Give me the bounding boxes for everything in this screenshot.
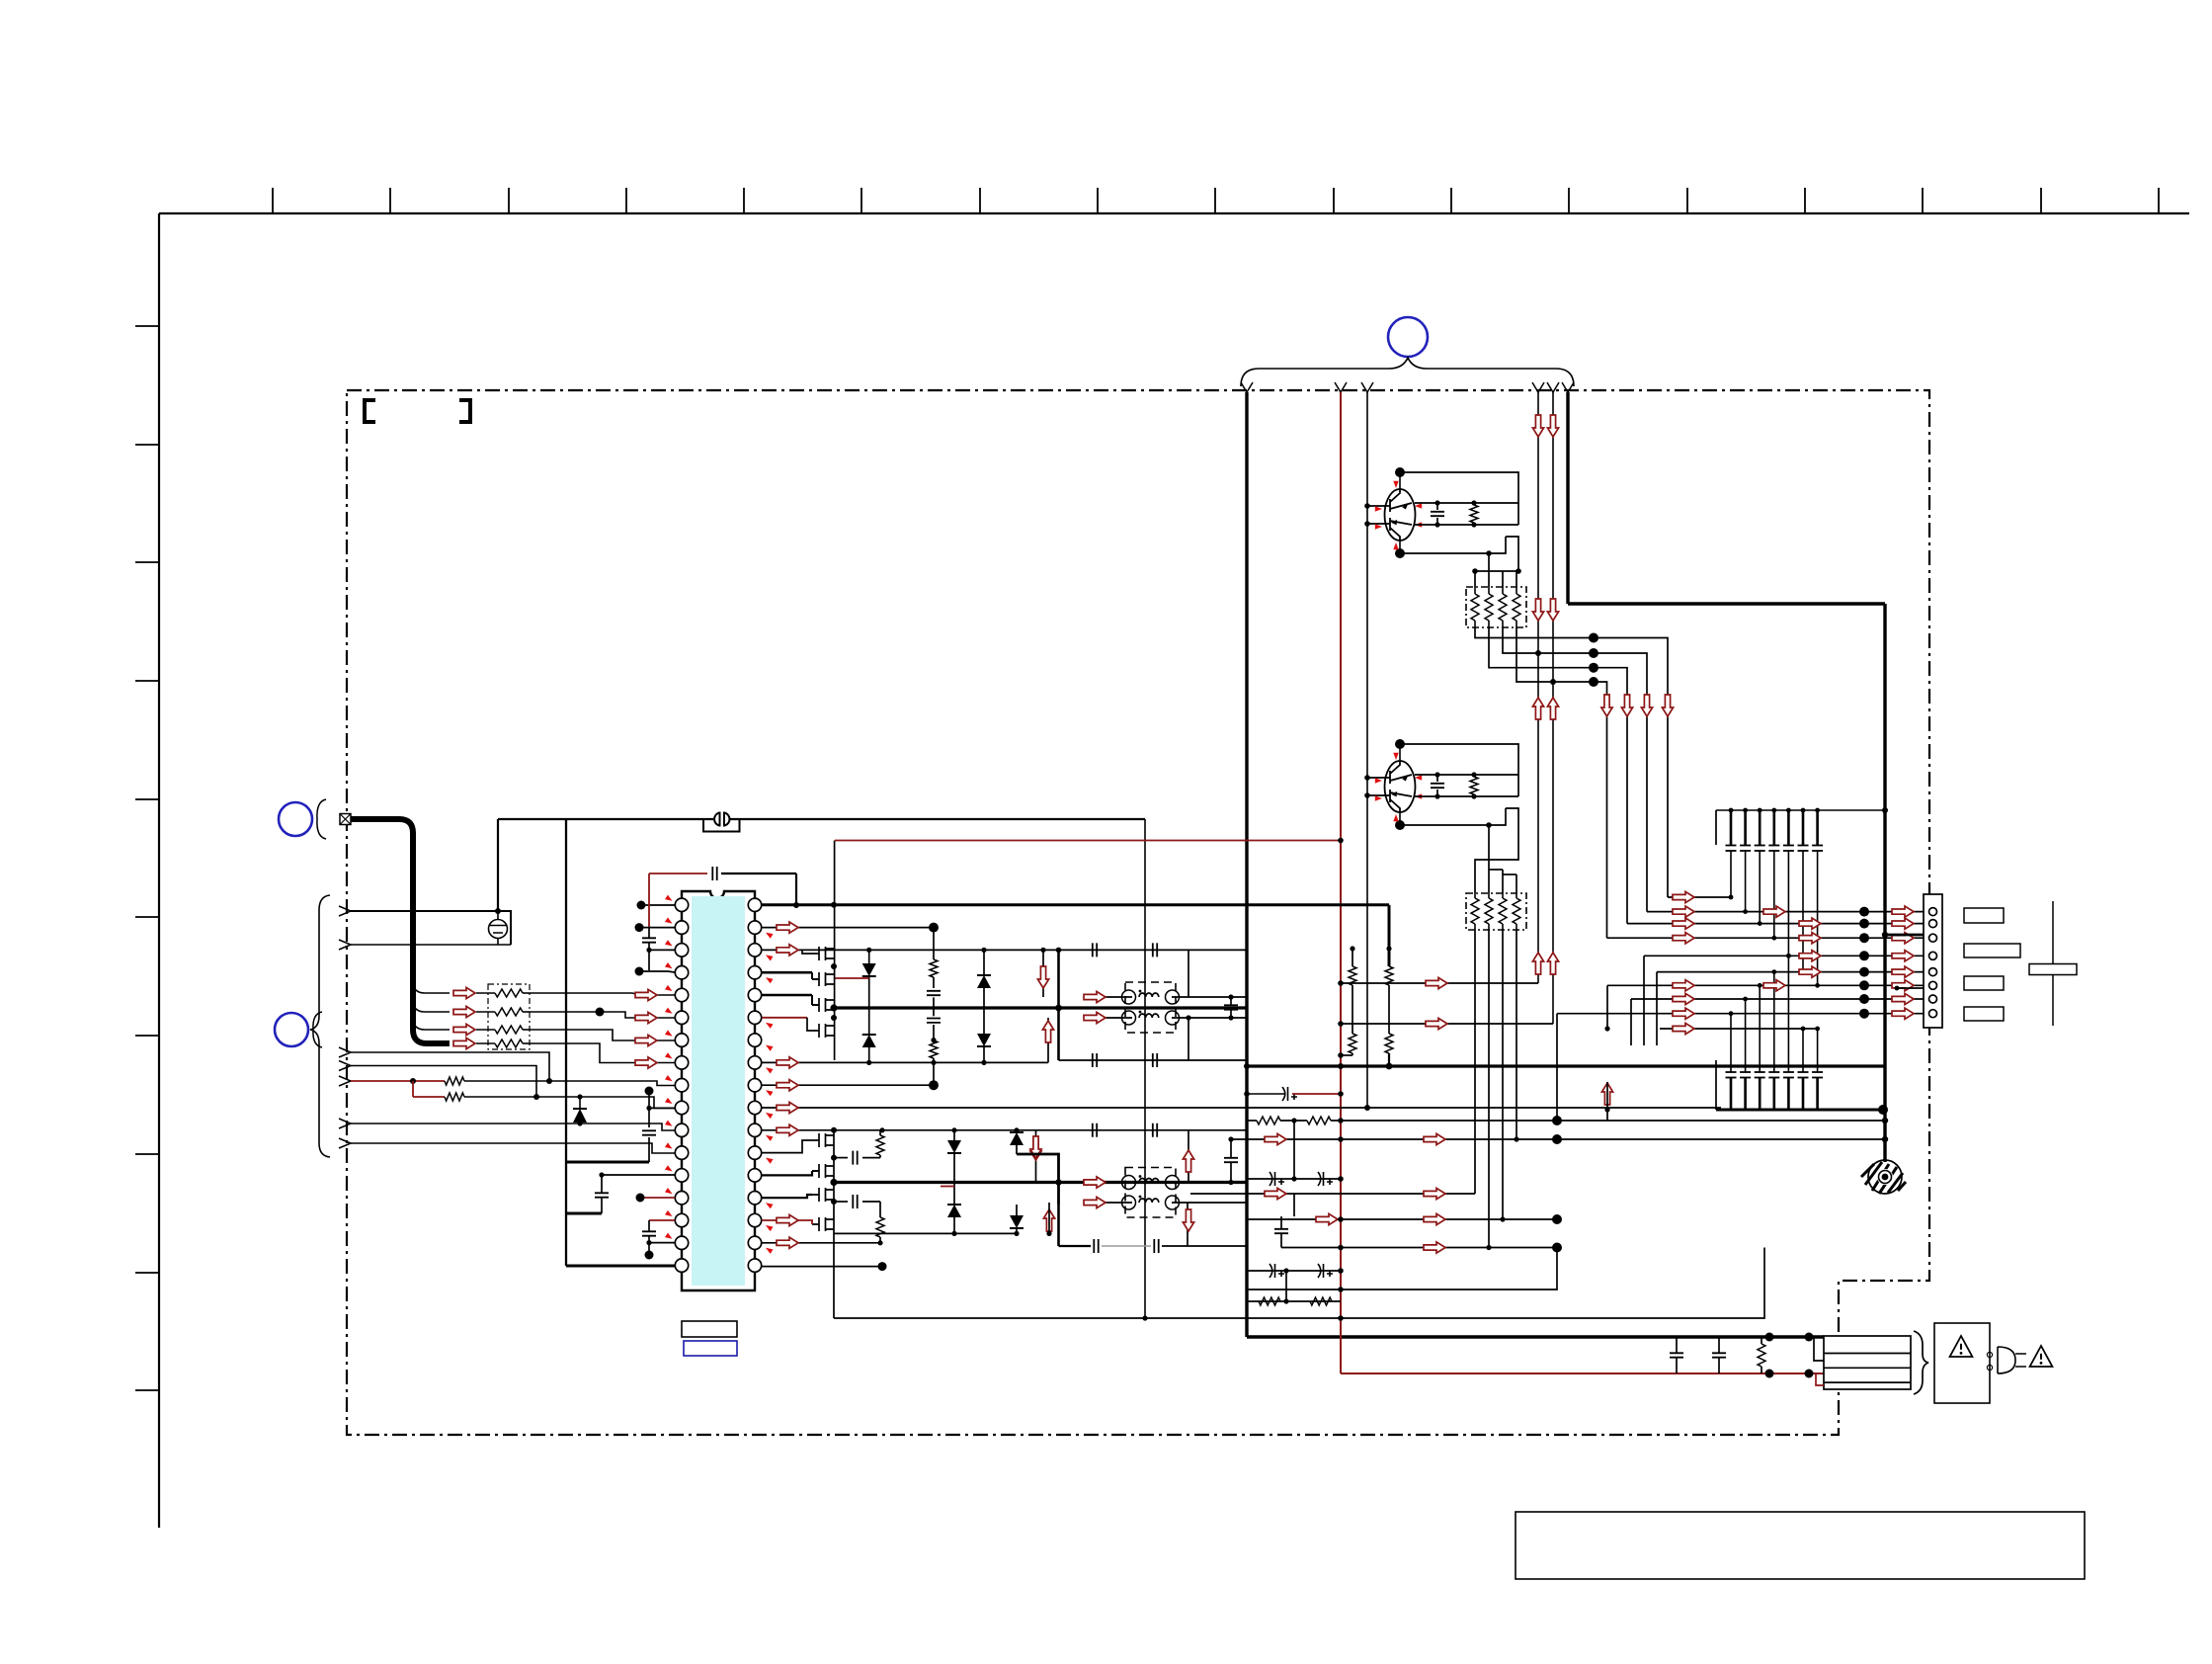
junction xyxy=(1786,954,1791,958)
connector pin small xyxy=(1987,1365,1992,1370)
label box 3 xyxy=(1964,976,2004,990)
pin mark xyxy=(1375,778,1382,783)
signal arrow xyxy=(1424,1242,1445,1253)
capacitor bank lead xyxy=(1787,956,1789,1072)
capacitor snub B1 xyxy=(853,1151,857,1165)
signal arrow xyxy=(777,945,798,956)
resistor network element xyxy=(1499,898,1507,924)
wire xyxy=(862,1157,880,1159)
wire mute row A xyxy=(1341,982,1538,984)
junction xyxy=(1386,946,1391,951)
signal arrow xyxy=(777,1237,798,1248)
junction xyxy=(1338,1063,1344,1069)
wire xyxy=(1016,1228,1018,1233)
junction xyxy=(1882,932,1888,938)
pin mark R9 xyxy=(765,1088,774,1096)
junction xyxy=(931,1060,936,1065)
signal arrow xyxy=(1799,966,1821,977)
signal arrow down xyxy=(1547,599,1558,621)
wire cable branch 3 xyxy=(413,1018,450,1030)
wire xyxy=(1488,924,1490,930)
pin mark L3 xyxy=(665,940,674,948)
capacitor decouple xyxy=(642,1130,656,1134)
resistor network element xyxy=(1485,594,1493,621)
capacitor bank bottom element xyxy=(1798,1072,1809,1110)
junction xyxy=(1244,1063,1250,1069)
junction xyxy=(830,1179,837,1186)
wire return feed bus dark red xyxy=(1340,392,1342,1373)
pin mark L9 xyxy=(665,1075,674,1083)
wire xyxy=(1399,812,1401,825)
pin L8 xyxy=(675,1056,688,1069)
junction xyxy=(1801,1027,1806,1032)
wire mute line B xyxy=(1552,392,1554,1024)
wire xyxy=(879,1237,881,1243)
label box 4 xyxy=(1964,1007,2004,1021)
label box 2 xyxy=(1964,944,2020,957)
wire R10 run xyxy=(762,1107,1721,1109)
wire to L10 xyxy=(464,1097,675,1108)
wire xyxy=(1016,1205,1018,1215)
wire xyxy=(879,1130,881,1135)
wire return feed to connector dark red xyxy=(1341,1373,1824,1374)
junction xyxy=(1859,907,1869,917)
pin mark R3 xyxy=(765,953,774,960)
transistor mosfet A xyxy=(812,972,834,986)
signal arrow xyxy=(1673,1023,1694,1034)
wire xyxy=(1488,825,1490,893)
junction xyxy=(1434,793,1439,798)
junction xyxy=(1805,1333,1814,1342)
junction xyxy=(1729,808,1734,813)
wire xyxy=(812,978,819,980)
connector callout circle 3 xyxy=(275,1013,308,1046)
wire half bridge B out thick xyxy=(834,1181,1247,1184)
wire R9 xyxy=(762,1084,934,1086)
junction xyxy=(1771,936,1776,941)
wire logic gnd run xyxy=(498,818,713,820)
board connector pin xyxy=(1929,920,1937,928)
signal arrow down xyxy=(1532,599,1543,621)
wire xyxy=(1676,1337,1678,1353)
wire loop bottom xyxy=(1059,1059,1248,1061)
resistor supply 2 xyxy=(1307,1117,1331,1124)
wire loop drop B2 xyxy=(1187,1203,1188,1246)
board connector pin xyxy=(1929,1010,1937,1018)
transistor bottom node xyxy=(1395,548,1405,558)
capacitor decouple xyxy=(642,938,656,942)
diode B1 xyxy=(947,1140,961,1153)
wire to pin L5 xyxy=(530,993,675,995)
capacitor fb A2 xyxy=(1153,943,1157,957)
signal arrow xyxy=(1673,980,1694,991)
diode clamp xyxy=(573,1109,587,1123)
wire L10 tap xyxy=(649,1107,675,1109)
junction xyxy=(1552,1134,1562,1144)
resistor network element xyxy=(1513,594,1520,621)
junction xyxy=(1589,677,1598,687)
wire bus to L17 thick xyxy=(566,1265,675,1268)
wire dist row 2 xyxy=(1231,1138,1885,1140)
diode A2 xyxy=(862,1035,876,1047)
wire L3 xyxy=(649,949,675,951)
wire xyxy=(601,1198,603,1213)
board connector xyxy=(1924,894,1942,1028)
wire sense xyxy=(1352,949,1353,966)
junction xyxy=(1815,808,1820,813)
wire xyxy=(879,1155,881,1158)
junction xyxy=(878,1262,887,1271)
pin mark L6 xyxy=(665,1008,674,1016)
resistor sense upper xyxy=(1349,966,1356,985)
signal arrow down xyxy=(1030,1138,1041,1160)
wire elco row 4 xyxy=(1247,1270,1341,1272)
transistor mosfet A xyxy=(812,947,834,960)
wire dist row 1c xyxy=(1331,1120,1885,1122)
pin mark R15 xyxy=(765,1223,774,1231)
signal arrow xyxy=(777,922,798,933)
wire xyxy=(868,976,870,1035)
pin R17 xyxy=(748,1259,761,1272)
capacitor bank lead xyxy=(1745,999,1747,1072)
junction xyxy=(1589,648,1598,658)
wire tap 2 xyxy=(1897,987,1924,989)
resistor bias xyxy=(1470,505,1478,523)
connector callout circle xyxy=(1388,317,1428,357)
inductor winding xyxy=(1122,1175,1180,1189)
wire xyxy=(579,1097,581,1109)
wire input 3 xyxy=(351,1052,549,1081)
junction xyxy=(635,967,644,976)
pin mark L13 xyxy=(665,1165,674,1173)
wire R2 xyxy=(762,927,934,929)
wire xyxy=(953,1153,955,1205)
wire xyxy=(1516,621,1517,627)
wire entry chevron xyxy=(1335,382,1347,392)
wire connector row xyxy=(1657,971,1926,973)
capacitor bank top element xyxy=(1798,810,1809,851)
wire bank rise 3 xyxy=(1606,985,1608,1029)
wire xyxy=(1502,571,1504,587)
wire xyxy=(1502,893,1504,898)
input chevron xyxy=(339,906,351,916)
wire gate B1 xyxy=(762,1140,812,1153)
wire xyxy=(1280,1233,1282,1247)
diode A4 xyxy=(977,1034,991,1046)
pin R11 xyxy=(748,1123,761,1136)
resistor network element xyxy=(1471,898,1479,924)
junction xyxy=(1878,1105,1888,1115)
capacitor snubber xyxy=(1431,784,1444,788)
wire choke out A+ xyxy=(1172,996,1247,998)
signal arrow xyxy=(1892,951,1914,961)
wire xyxy=(1016,1130,1018,1132)
wire entry chevron xyxy=(1562,382,1574,392)
signal arrow xyxy=(635,989,657,1000)
junction xyxy=(1186,1015,1190,1020)
capacitor electrolytic 6 xyxy=(1270,1264,1284,1278)
pin L15 xyxy=(675,1213,688,1226)
wire dist row 1b xyxy=(1280,1120,1307,1122)
wire xyxy=(933,997,935,1016)
junction xyxy=(1765,1370,1774,1378)
junction xyxy=(831,1127,837,1133)
capacitor bank lead xyxy=(1802,1029,1804,1072)
pin mark R2 xyxy=(765,930,774,938)
capacitor bank bottom element xyxy=(1740,1072,1751,1110)
resistor pack element xyxy=(495,1008,523,1016)
wire vcc sense red xyxy=(835,840,1341,842)
junction xyxy=(1338,1176,1344,1182)
wire loop stub B xyxy=(1035,1130,1037,1183)
wire power feed bus xyxy=(1245,392,1248,1337)
pin R2 xyxy=(748,921,761,934)
signal arrow up xyxy=(1601,1083,1612,1105)
wire xyxy=(1016,1145,1018,1154)
resistor snub B1 xyxy=(876,1135,884,1155)
wire input 6 xyxy=(351,1123,675,1130)
junction xyxy=(1338,1091,1344,1097)
wire R1 rail thick xyxy=(762,903,1389,906)
signal arrow xyxy=(1673,933,1694,944)
wire xyxy=(1436,790,1438,796)
signal arrow xyxy=(1673,891,1694,902)
junction xyxy=(1338,1268,1344,1274)
wire mute row B xyxy=(1341,1023,1553,1025)
capacitor bank top element xyxy=(1726,810,1737,851)
wire xyxy=(1474,893,1476,898)
wire xyxy=(812,1170,819,1172)
board outline dash-dot box xyxy=(347,390,1929,1435)
pin R6 xyxy=(748,1011,761,1024)
wire xyxy=(1606,1082,1608,1121)
junction xyxy=(1338,838,1344,844)
wire xyxy=(648,928,650,939)
junction xyxy=(1859,967,1869,977)
chassis ground symbol xyxy=(1861,1160,1906,1194)
capacitor fb B2 xyxy=(1153,1123,1157,1137)
signal arrow xyxy=(1673,918,1694,929)
wire xyxy=(1230,1162,1232,1182)
resistor pack element xyxy=(495,1040,523,1047)
op-amp IC body xyxy=(682,891,755,1290)
pin mark xyxy=(1393,481,1398,488)
input group brace xyxy=(310,895,330,1157)
wire xyxy=(1473,794,1475,796)
wire top node feed xyxy=(1400,472,1518,503)
connector callout circle 2 xyxy=(279,802,312,836)
junction xyxy=(1859,994,1869,1004)
junction xyxy=(931,1038,936,1042)
pin mark L15 xyxy=(665,1210,674,1218)
pin R12 xyxy=(748,1146,761,1159)
junction xyxy=(1882,1118,1888,1123)
wire xyxy=(983,1046,985,1062)
junction xyxy=(577,1094,582,1099)
wire xyxy=(1474,587,1476,594)
capacitor bank lead xyxy=(1730,851,1732,897)
wire xyxy=(862,1201,880,1203)
signal arrow down xyxy=(1641,695,1652,716)
wire R16 xyxy=(762,1242,880,1244)
junction xyxy=(1056,948,1062,954)
capacitor bank bottom element xyxy=(1726,1072,1737,1110)
junction xyxy=(866,1060,871,1065)
capacitor across outputs B xyxy=(1224,1158,1238,1162)
junction xyxy=(646,948,651,953)
callout brace 3 xyxy=(313,1012,322,1047)
wire logic gnd drop xyxy=(497,819,499,910)
wire L16 tap xyxy=(649,1242,675,1244)
wire xyxy=(1399,472,1401,489)
wire xyxy=(1399,744,1401,761)
wire xyxy=(1516,571,1517,587)
diode B4 xyxy=(1010,1215,1024,1228)
signal arrow up xyxy=(1532,953,1543,974)
wire xyxy=(1715,1060,1717,1110)
transistor pair package xyxy=(1385,489,1416,541)
wire bottom node feed xyxy=(1400,537,1506,553)
pin L13 xyxy=(675,1169,688,1182)
wire xyxy=(579,1123,581,1123)
wire thick gnd stub 2 xyxy=(566,1212,602,1215)
junction xyxy=(793,902,799,908)
wire input 7 xyxy=(351,1143,675,1153)
junction xyxy=(596,1008,605,1017)
junction xyxy=(1055,1179,1061,1185)
junction xyxy=(1516,568,1521,574)
junction xyxy=(1604,1107,1609,1112)
wire red stub xyxy=(941,1186,954,1188)
junction xyxy=(1758,983,1762,988)
junction xyxy=(635,923,644,932)
signal arrow xyxy=(1424,1213,1445,1224)
transistor pair package xyxy=(1385,761,1416,812)
pin mark xyxy=(1393,542,1398,549)
part label box xyxy=(682,1321,737,1337)
pin L1 xyxy=(675,898,688,911)
junction xyxy=(1228,1136,1233,1141)
capacitor across outputs A xyxy=(1224,1005,1238,1009)
pin mark xyxy=(1393,814,1398,821)
board connector pin xyxy=(1929,981,1937,989)
junction xyxy=(495,908,501,914)
wire analog bus xyxy=(565,819,567,1266)
pin R15 xyxy=(748,1213,761,1226)
junction xyxy=(533,1094,539,1100)
capacitor snub A1 xyxy=(927,991,941,995)
pin L6 xyxy=(675,1011,688,1024)
wire elco row 2 xyxy=(1247,1178,1341,1180)
transistor top node xyxy=(1395,467,1405,477)
wire entry chevron xyxy=(1532,382,1544,392)
wire logic gnd right drop xyxy=(1144,819,1146,1318)
wire xyxy=(1516,893,1517,898)
wire net row 3 xyxy=(1489,627,1627,924)
junction xyxy=(1283,1298,1288,1303)
wire elco row 1 xyxy=(1247,1093,1284,1095)
pin L11 xyxy=(675,1123,688,1136)
wire xyxy=(868,950,870,963)
signal arrow xyxy=(1084,991,1106,1002)
capacitor electrolytic 1 xyxy=(1282,1087,1297,1101)
signal arrow xyxy=(635,1012,657,1023)
capacitor fb A4 xyxy=(1153,1053,1157,1067)
connector pin small xyxy=(1987,1352,1992,1357)
wire choke in B+ xyxy=(1084,1182,1132,1184)
wire xyxy=(1473,503,1475,505)
pin L3 xyxy=(675,944,688,957)
wire xyxy=(983,988,985,1034)
wire xyxy=(648,1137,650,1162)
wire xyxy=(1516,874,1517,893)
pin mark xyxy=(1415,522,1422,527)
part label box blue xyxy=(684,1341,737,1356)
signal arrow xyxy=(1892,966,1914,977)
capacitor electrolytic 2 xyxy=(1270,1172,1284,1186)
ac plug symbol xyxy=(1998,1347,2026,1373)
wire res pair row xyxy=(1247,1300,1341,1302)
wire fb rise 5 xyxy=(1556,1014,1558,1121)
junction xyxy=(1550,679,1556,685)
border tick marks top xyxy=(273,188,2159,213)
signal arrow xyxy=(1763,906,1785,917)
wire bank rise 4 xyxy=(1630,999,1632,1045)
pin R3 xyxy=(748,944,761,957)
junction xyxy=(1859,980,1869,990)
wire ground rail top xyxy=(1568,602,1885,605)
wire sense xyxy=(1352,985,1353,1034)
junction xyxy=(1471,500,1476,505)
capacitor bank lead xyxy=(1817,1029,1819,1072)
junction xyxy=(1338,1287,1344,1292)
wire xyxy=(1436,775,1438,782)
board connector pin xyxy=(1929,952,1937,959)
wire xyxy=(1715,810,1717,845)
signal arrow xyxy=(1892,933,1914,944)
signal arrow down xyxy=(1030,1136,1041,1158)
wire entry chevron xyxy=(1241,382,1253,392)
junction xyxy=(1500,1216,1505,1221)
wire xyxy=(1489,869,1503,871)
signal arrow xyxy=(1892,993,1914,1004)
junction xyxy=(1604,1026,1609,1031)
junction xyxy=(1758,808,1762,813)
resistor pair 1 xyxy=(1259,1297,1280,1305)
junction xyxy=(877,1240,882,1245)
pin mark L11 xyxy=(665,1121,674,1128)
signal arrow xyxy=(453,1038,475,1048)
pin mark xyxy=(1415,775,1422,780)
transistor mosfet A xyxy=(812,998,834,1012)
pin mark R16 xyxy=(765,1246,774,1254)
wire red link xyxy=(412,1081,414,1097)
wire elco row 1 red xyxy=(1292,1093,1341,1095)
wire connector row xyxy=(1557,1013,1926,1015)
capacitor electrolytic 3 xyxy=(1318,1172,1333,1186)
junction xyxy=(1815,983,1820,988)
pin R8 xyxy=(748,1056,761,1069)
junction xyxy=(1040,948,1045,953)
wire choke in A- xyxy=(1084,1017,1132,1019)
wire fb rise 3 xyxy=(1488,930,1490,1248)
junction xyxy=(1471,793,1476,798)
junction xyxy=(1758,921,1762,926)
capacitor bank lead xyxy=(1730,1014,1732,1072)
wire to pin L8 xyxy=(530,1043,675,1063)
pin R5 xyxy=(748,988,761,1001)
wire red top xyxy=(649,873,707,874)
